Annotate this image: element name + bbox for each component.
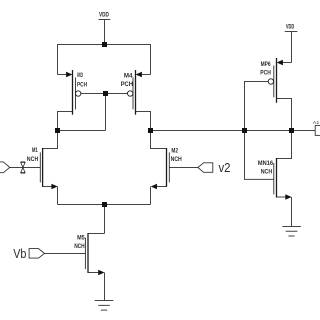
svg-text:NCH: NCH <box>27 156 39 163</box>
svg-text:NCH: NCH <box>171 156 183 163</box>
svg-text:Vb: Vb <box>13 247 26 261</box>
svg-text:A1: A1 <box>313 120 320 125</box>
svg-text:MN16: MN16 <box>258 160 274 167</box>
svg-text:VDD: VDD <box>99 11 109 18</box>
svg-text:v2: v2 <box>219 161 231 175</box>
svg-text:M1: M1 <box>32 147 38 154</box>
svg-text:M5: M5 <box>77 235 85 242</box>
svg-text:VDD: VDD <box>286 24 295 31</box>
svg-text:M3: M3 <box>77 72 83 79</box>
svg-text:PCH: PCH <box>77 82 87 89</box>
svg-text:M2: M2 <box>171 147 178 154</box>
svg-text:PCH: PCH <box>121 81 134 88</box>
svg-text:NCH: NCH <box>74 243 85 250</box>
svg-text:M4: M4 <box>124 72 133 79</box>
svg-text:MP6: MP6 <box>261 61 271 68</box>
svg-text:NCH: NCH <box>261 169 273 176</box>
svg-text:PCH: PCH <box>260 70 271 77</box>
